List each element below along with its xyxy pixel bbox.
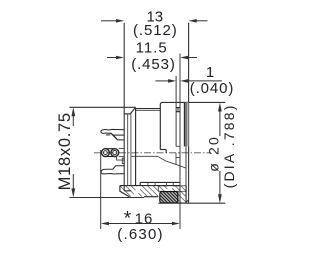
upper notch bottom (176, 145, 180, 147)
dimension 16 (101, 222, 180, 226)
flange bottom chamfer (185, 200, 189, 204)
extension+nut bottom line (M18 bottom) (69, 197, 144, 199)
svg-text:M18x0.75: M18x0.75 (56, 112, 74, 190)
extension+thread line top (M18 top) (69, 106, 135, 108)
body bottom + dia20 bottom extension (158, 202, 225, 204)
white gap cell in thin row (167, 186, 174, 192)
mid body thread second line (136, 109, 161, 111)
front section left edge (159, 104, 161, 149)
bottom solder pin (101, 166, 124, 174)
rear face + left extension (123, 23, 125, 191)
rear tube bottom (124, 190, 131, 192)
svg-text:(.630): (.630) (117, 226, 163, 243)
connector body outline (120, 102, 189, 203)
inner vertical v2 (127, 114, 129, 186)
dimension 13 (101, 19, 208, 23)
thread chamfer (130, 107, 135, 114)
svg-text:11.5: 11.5 (136, 39, 168, 56)
hatched flange section lower-right (178, 191, 186, 203)
svg-text:1: 1 (206, 64, 214, 81)
centerline (94, 152, 211, 154)
body top + dia20 top extension (160, 102, 225, 104)
svg-text:(.512): (.512) (133, 22, 178, 39)
svg-text:(.453): (.453) (131, 56, 176, 73)
rear step top (124, 113, 130, 115)
bottom mid edge (144, 196, 158, 198)
top solder pin (101, 129, 124, 140)
nut rear lip (120, 186, 130, 197)
upper seal block in groove (176, 108, 180, 112)
dimension dia20 (218, 103, 222, 204)
front cavity step (160, 149, 166, 151)
front face + right extension (188, 23, 190, 203)
slot band top (140, 181, 180, 183)
groove right edge / 11.5 + 16 extension column (179, 54, 181, 230)
flange inner line (183, 102, 185, 146)
hatch white gap (133, 186, 141, 197)
inner vertical v3 (130, 114, 132, 186)
mid body rear vertical (135, 108, 137, 186)
slot band ticks (147, 182, 149, 185)
dimension 11.5 (107, 56, 197, 60)
hatched thin row right of nut (158, 186, 186, 192)
dimension 1 (155, 79, 222, 83)
groove left edge / 1-dim left extension (175, 76, 177, 146)
svg-text:(.040): (.040) (190, 80, 235, 97)
svg-text:ø 20: ø 20 (205, 135, 221, 172)
svg-text:(DIA .788): (DIA .788) (221, 103, 237, 188)
dimension M18 (71, 107, 75, 197)
lower bore line (131, 156, 186, 168)
lower notch (176, 157, 180, 159)
middle contact circles (102, 149, 119, 157)
nut top edge (120, 185, 180, 187)
16-dim left extension from contact (100, 150, 102, 229)
flange body grey band (184, 102, 188, 146)
contact sleeve lines (119, 147, 124, 149)
hatched nut section lower-left (120, 186, 158, 197)
dense hatched gasket block bottom (160, 192, 178, 203)
rear small step rect (122, 158, 124, 164)
mid body top line (136, 108, 161, 110)
